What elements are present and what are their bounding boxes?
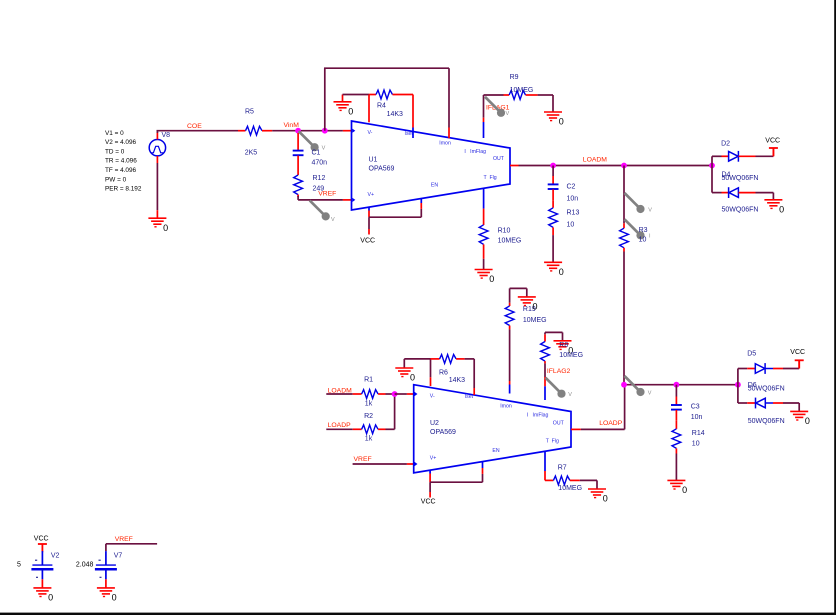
svg-text:D6: D6: [748, 382, 757, 389]
svg-text:R3: R3: [639, 227, 648, 234]
wire junction to D6 row: [738, 385, 747, 403]
node junction dot at C3 branch: [674, 382, 680, 388]
svg-text:TF = 4.096: TF = 4.096: [105, 167, 137, 174]
resistor R7: [545, 476, 580, 485]
svg-text:EN: EN: [431, 182, 438, 188]
node junction dot at C2 branch: [550, 163, 556, 169]
svg-text:0: 0: [603, 494, 608, 504]
wire VREF from V7: [106, 544, 157, 551]
wire R10 to ground: [483, 259, 485, 270]
svg-text:0: 0: [779, 204, 784, 214]
wire junction to D4 row: [712, 166, 722, 193]
svg-text:1k: 1k: [365, 400, 373, 407]
wire R19 top to ground: [510, 288, 527, 302]
svg-text:R10: R10: [498, 228, 511, 235]
svg-text:10n: 10n: [567, 196, 579, 203]
svg-text:10MEG: 10MEG: [558, 485, 582, 492]
V8 parameter list: [105, 130, 142, 193]
resistor R1: [353, 390, 386, 399]
svg-text:R7: R7: [558, 464, 567, 471]
svg-text:2K5: 2K5: [245, 150, 258, 157]
svg-text:V1 = 0: V1 = 0: [105, 130, 124, 137]
wire D5 to VCC: [783, 360, 799, 368]
U2 T Flg pin stub: [544, 451, 546, 481]
capacitor C3: [671, 385, 682, 421]
svg-text:5: 5: [17, 562, 21, 569]
wire IFLAG1 column to U1 ImFlag pin: [483, 95, 485, 138]
svg-text:I ImFlag: I ImFlag: [464, 149, 486, 155]
svg-text:VCC: VCC: [790, 349, 805, 356]
svg-text:PW = 0: PW = 0: [105, 176, 127, 183]
svg-text:50WQ06FN: 50WQ06FN: [722, 207, 759, 214]
U2 VCC pin wiring and EN pin loop: [430, 461, 482, 497]
voltage probe at VREF wire: [310, 200, 330, 220]
svg-text:V: V: [568, 392, 572, 398]
svg-text:VREF: VREF: [115, 536, 133, 543]
node junction dot at R3 branch: [621, 163, 627, 169]
ground 0 below R10: [475, 270, 493, 279]
resistor R2: [353, 425, 386, 434]
svg-text:I: I: [649, 234, 651, 240]
svg-text:U1: U1: [369, 157, 378, 164]
node junction dot R1/R2: [392, 391, 398, 397]
wire R13 to ground: [552, 235, 554, 262]
voltage source V7 (VDC): [95, 551, 117, 588]
svg-text:Imon: Imon: [500, 404, 512, 410]
voltage probe at IFLAG1: [485, 97, 505, 117]
U1 T Flg pin stub: [483, 188, 485, 225]
U1 V- pin arrow: [352, 129, 355, 133]
svg-text:R5: R5: [245, 109, 254, 116]
svg-text:VREF: VREF: [318, 190, 336, 197]
svg-text:14K3: 14K3: [449, 377, 465, 384]
diode D6: [747, 398, 783, 409]
svg-text:VCC: VCC: [34, 535, 49, 542]
wire R3 branch from LOADM: [623, 166, 625, 224]
svg-text:T Flg: T Flg: [546, 439, 559, 445]
wire VinM to U1 V- pin: [298, 130, 351, 132]
svg-text:Imon: Imon: [439, 141, 451, 147]
wire R7 to ground: [580, 480, 597, 489]
wire LOADM: U1 OUT to diode clamp: [510, 165, 712, 167]
wire LOADM to R1: [326, 393, 352, 395]
svg-text:V-: V-: [430, 394, 435, 400]
wire R2 up to junction: [386, 394, 395, 429]
node junction dot at R3/LOADP: [621, 382, 627, 388]
svg-text:R13: R13: [567, 209, 580, 216]
svg-text:10: 10: [567, 222, 575, 229]
current probe on R3 branch: [625, 219, 645, 239]
wire R8 to U2 IFlag pin: [544, 363, 546, 400]
wire V8 to ground: [156, 163, 158, 210]
svg-text:C1: C1: [312, 149, 321, 156]
wire ground to R4 rail: [343, 94, 370, 96]
ground 0 above R19: [518, 297, 536, 306]
voltage probe on R3 branch: [625, 193, 645, 213]
svg-text:0: 0: [559, 267, 564, 277]
wire LOADP to R2: [326, 428, 352, 430]
svg-text:PER = 8.192: PER = 8.192: [105, 186, 142, 193]
wire junction to D2 row: [712, 156, 722, 165]
resistor R6: [431, 355, 465, 364]
U2 V+ pin arrow: [415, 462, 418, 466]
resistor R12: [294, 167, 303, 197]
capacitor C1: [293, 133, 304, 167]
U1 V+ pin arrow: [352, 198, 355, 202]
svg-text:D4: D4: [722, 172, 731, 179]
svg-text:0: 0: [682, 485, 687, 495]
voltage source V2 (VDC): [31, 551, 53, 588]
ground 0 above R8: [562, 332, 564, 340]
ground 0 below V7: [97, 588, 115, 597]
svg-text:V2 = 4.096: V2 = 4.096: [105, 139, 137, 146]
power symbol VCC at V2: [38, 544, 47, 552]
voltage probe at LOADP node: [625, 376, 645, 396]
svg-text:V+: V+: [368, 192, 375, 198]
resistor R9: [504, 91, 538, 100]
svg-text:1k: 1k: [365, 436, 373, 443]
wire IFLAG1 to R9: [484, 94, 504, 96]
resistor R8: [541, 334, 550, 363]
resistor R4: [369, 90, 413, 99]
svg-text:V: V: [648, 207, 652, 213]
ground 0 after R9: [544, 112, 562, 121]
U1 top pin stub 1: [368, 95, 370, 123]
svg-text:TD = 0: TD = 0: [105, 148, 125, 155]
wire R5 to VinM node: [272, 130, 298, 132]
svg-text:10MEG: 10MEG: [559, 352, 583, 359]
diode D2: [722, 151, 756, 162]
ground 0 at R7: [588, 489, 606, 498]
svg-text:0: 0: [48, 593, 53, 603]
svg-text:VCC: VCC: [421, 499, 436, 506]
svg-text:EN: EN: [492, 448, 499, 454]
svg-text:0: 0: [112, 593, 117, 603]
svg-text:10n: 10n: [691, 414, 703, 421]
svg-text:R14: R14: [692, 430, 705, 437]
wire VREF: R12 to U1 V+ pin: [298, 196, 351, 200]
svg-text:R4: R4: [377, 103, 386, 110]
resistor R3: [620, 223, 629, 251]
svg-text:OPA569: OPA569: [430, 429, 456, 436]
svg-text:VREF: VREF: [354, 456, 372, 463]
svg-text:V: V: [331, 217, 335, 223]
wire D2 to VCC: [756, 148, 774, 156]
svg-text:0: 0: [163, 223, 168, 233]
wire R19 to U2 Imon pin: [509, 329, 511, 393]
svg-text:R6: R6: [439, 370, 448, 377]
wire COE: V8 to R5: [157, 131, 239, 133]
svg-text:0: 0: [533, 302, 538, 312]
svg-text:0: 0: [805, 416, 810, 426]
power symbol VCC at D2: [769, 148, 778, 156]
feedback wire from VinM node to U1 Imon pin: [324, 68, 449, 131]
wire R9 to ground: [538, 95, 553, 112]
resistor R13: [549, 200, 558, 235]
svg-text:LOADP: LOADP: [599, 420, 623, 427]
svg-text:10: 10: [692, 441, 700, 448]
wire junction to D5 row: [738, 369, 747, 385]
node junction dot at feedback takeoff: [322, 128, 328, 134]
svg-text:OPA569: OPA569: [369, 165, 395, 172]
svg-text:Iset: Iset: [465, 394, 474, 400]
svg-text:VCC: VCC: [360, 238, 375, 245]
svg-text:VCC: VCC: [765, 138, 780, 145]
resistor R19: [505, 303, 514, 330]
ground 0 at R4 left: [334, 95, 352, 111]
wire R8 top to ground: [545, 332, 563, 334]
svg-text:Iset: Iset: [405, 131, 414, 137]
svg-text:R8: R8: [559, 342, 568, 349]
op-amp U2 OPA569 body: [414, 385, 571, 473]
diode D4: [722, 187, 756, 198]
voltage source V8 (VPULSE): [149, 132, 165, 163]
svg-text:R12: R12: [313, 175, 326, 182]
U1 Iset pin stub: [412, 95, 414, 139]
wire LOADP: U2 OUT up to node row: [571, 385, 625, 430]
page frame right border: [834, 0, 836, 615]
svg-text:10MEG: 10MEG: [498, 237, 522, 244]
svg-text:V8: V8: [162, 132, 171, 139]
op-amp U1 OPA569 body: [352, 121, 511, 210]
wire VREF to U2 V+ pin: [353, 463, 414, 465]
wire LOADP node row to diode clamp: [624, 384, 738, 386]
svg-text:TR = 4.096: TR = 4.096: [105, 158, 137, 165]
U2 Iset pin stub: [465, 359, 475, 395]
svg-text:0: 0: [489, 274, 494, 284]
svg-text:470n: 470n: [312, 160, 328, 167]
svg-text:D5: D5: [747, 351, 756, 358]
ground 0 at D6: [790, 411, 808, 420]
node junction dot at D2 branch: [709, 163, 715, 169]
node VinM junction dot: [295, 128, 301, 134]
power symbol VCC at D5: [795, 360, 804, 368]
node junction dot at D5 branch: [735, 382, 741, 388]
U2 top pin stub 1: [430, 359, 432, 386]
svg-text:10MEG: 10MEG: [510, 87, 534, 94]
resistor R5: [238, 126, 272, 135]
ground 0 below V8: [148, 218, 166, 227]
svg-text:R9: R9: [510, 74, 519, 81]
svg-text:R1: R1: [364, 377, 373, 384]
wire D6 to ground: [783, 403, 799, 411]
wire junction to U2 V- pin: [395, 393, 414, 395]
capacitor C2: [548, 166, 559, 201]
voltage probe at VinM: [299, 131, 319, 151]
U2 V- pin arrow: [415, 392, 418, 396]
svg-text:2.048: 2.048: [76, 562, 94, 569]
wire ground to R6 rail: [404, 358, 430, 360]
svg-text:OUT: OUT: [553, 421, 565, 427]
diode D5: [747, 363, 783, 374]
ground 0 below R13: [544, 262, 562, 271]
wire D4 to ground: [756, 193, 774, 200]
svg-text:R2: R2: [364, 413, 373, 420]
resistor R14: [672, 421, 681, 454]
U1 VCC pin wiring and EN pin loop: [369, 199, 421, 235]
ground 0 below R14: [667, 480, 685, 489]
wire R1 to junction: [386, 393, 395, 395]
svg-text:V7: V7: [114, 553, 123, 560]
svg-text:V+: V+: [430, 456, 437, 462]
svg-text:IFLAG2: IFLAG2: [547, 368, 571, 375]
svg-text:V2: V2: [51, 553, 60, 560]
svg-text:LOADP: LOADP: [328, 422, 352, 429]
svg-text:14K3: 14K3: [387, 111, 403, 118]
svg-text:LOADM: LOADM: [583, 157, 608, 164]
ground 0 at R6 left: [395, 359, 413, 377]
svg-text:C3: C3: [691, 403, 700, 410]
voltage probe at IFLAG2: [546, 378, 566, 398]
svg-text:I ImFlag: I ImFlag: [527, 413, 549, 419]
svg-text:V: V: [648, 391, 652, 397]
svg-text:0: 0: [559, 117, 564, 127]
ground 0 at D4: [764, 200, 782, 209]
svg-text:V: V: [506, 111, 510, 117]
svg-text:T Flg: T Flg: [484, 175, 497, 181]
wire R3 down to LOADP node: [623, 252, 625, 385]
resistor R10: [479, 225, 488, 259]
wire R14 to ground: [675, 454, 677, 481]
U1 Imon pin stub: [448, 128, 450, 139]
svg-text:OUT: OUT: [493, 156, 505, 162]
ground 0 below V2: [33, 588, 51, 597]
svg-text:V-: V-: [368, 130, 373, 136]
svg-text:U2: U2: [430, 420, 439, 427]
page frame bottom border: [0, 613, 836, 615]
svg-text:D2: D2: [721, 140, 730, 147]
svg-text:10: 10: [639, 236, 647, 243]
svg-text:COE: COE: [187, 123, 202, 130]
svg-text:10MEG: 10MEG: [523, 317, 547, 324]
svg-text:0: 0: [348, 106, 353, 116]
svg-text:C2: C2: [567, 183, 576, 190]
svg-text:V: V: [322, 146, 326, 152]
svg-text:0: 0: [410, 373, 415, 383]
svg-text:50WQ06FN: 50WQ06FN: [748, 418, 785, 425]
svg-text:VinM: VinM: [284, 122, 300, 129]
